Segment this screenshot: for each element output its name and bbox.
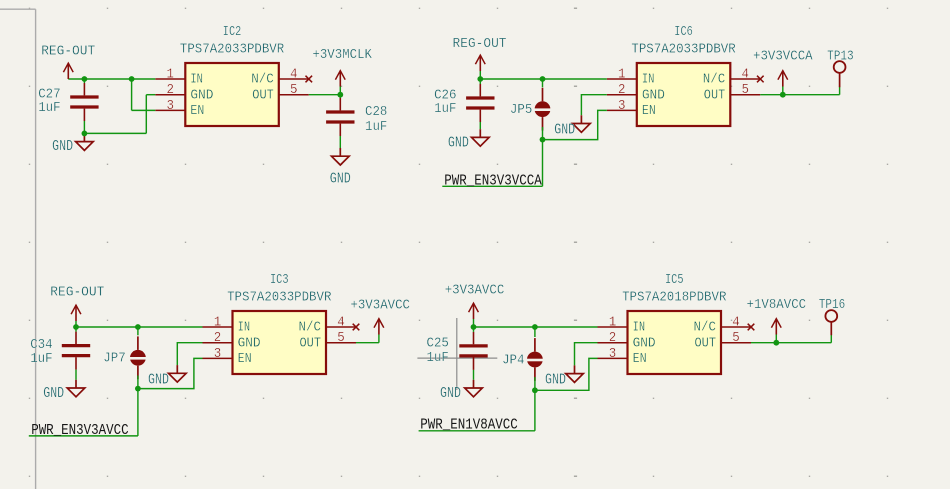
svg-text:2: 2 [214,330,222,346]
svg-text:JP5: JP5 [510,102,532,118]
svg-text:OUT: OUT [695,335,717,351]
svg-text:+3V3AVCC: +3V3AVCC [350,297,410,313]
svg-text:3: 3 [609,346,617,362]
svg-text:+3V3MCLK: +3V3MCLK [312,47,372,63]
svg-text:1: 1 [214,314,222,330]
svg-text:REG-OUT: REG-OUT [41,43,95,59]
svg-text:1uF: 1uF [434,101,456,117]
svg-text:EN: EN [642,103,656,119]
svg-text:PWR_EN3V3VCCA: PWR_EN3V3VCCA [444,173,542,189]
svg-text:GND: GND [43,386,64,402]
svg-text:GND: GND [545,373,566,389]
svg-text:4: 4 [337,314,345,330]
svg-text:5: 5 [732,330,740,346]
svg-text:IN: IN [190,72,203,88]
svg-text:OUT: OUT [704,87,726,103]
svg-text:PWR_EN3V3AVCC: PWR_EN3V3AVCC [31,423,129,439]
svg-text:GND: GND [148,372,169,388]
svg-text:N/C: N/C [694,320,717,336]
svg-text:1: 1 [167,66,175,82]
svg-text:2: 2 [167,82,175,98]
svg-text:TPS7A2033PDBVR: TPS7A2033PDBVR [180,42,285,58]
svg-text:1: 1 [609,314,617,330]
svg-text:REG-OUT: REG-OUT [50,285,104,301]
svg-text:IC5: IC5 [665,272,684,288]
svg-text:3: 3 [214,346,222,362]
svg-text:TP16: TP16 [819,297,846,313]
svg-text:+1V8AVCC: +1V8AVCC [747,297,807,313]
svg-text:IN: IN [642,72,655,88]
svg-text:GND: GND [642,87,665,103]
svg-text:+3V3VCCA: +3V3VCCA [753,49,813,65]
svg-text:GND: GND [554,123,575,139]
svg-text:TPS7A2033PDBVR: TPS7A2033PDBVR [631,42,736,58]
svg-text:IC2: IC2 [223,24,242,40]
svg-text:IC3: IC3 [270,272,289,288]
svg-text:OUT: OUT [300,335,322,351]
svg-text:TPS7A2018PDBVR: TPS7A2018PDBVR [622,290,727,306]
svg-text:5: 5 [742,82,750,98]
svg-text:1uF: 1uF [427,350,449,366]
svg-text:1uF: 1uF [38,100,60,116]
svg-text:C25: C25 [427,335,449,351]
svg-text:GND: GND [238,335,261,351]
svg-text:TP13: TP13 [827,49,854,65]
svg-text:REG-OUT: REG-OUT [453,36,507,52]
svg-text:2: 2 [618,82,626,98]
svg-text:GND: GND [440,386,461,402]
svg-text:GND: GND [330,171,351,187]
svg-text:EN: EN [190,103,204,119]
svg-text:EN: EN [238,351,252,367]
svg-text:1uF: 1uF [30,351,52,367]
svg-text:JP4: JP4 [502,352,524,368]
svg-text:C28: C28 [365,104,387,120]
svg-text:GND: GND [190,87,213,103]
svg-text:IC6: IC6 [674,24,693,40]
svg-text:3: 3 [618,98,626,114]
svg-text:3: 3 [167,98,175,114]
svg-text:4: 4 [742,66,750,82]
svg-text:N/C: N/C [251,72,274,88]
svg-text:GND: GND [52,139,73,155]
svg-text:JP7: JP7 [103,351,125,367]
svg-text:EN: EN [633,351,647,367]
svg-text:4: 4 [732,314,740,330]
svg-text:N/C: N/C [299,320,322,336]
svg-text:GND: GND [633,335,656,351]
svg-text:4: 4 [290,66,298,82]
svg-text:2: 2 [609,330,617,346]
svg-text:5: 5 [337,330,345,346]
svg-text:5: 5 [290,82,298,98]
svg-text:IN: IN [238,320,251,336]
svg-text:OUT: OUT [252,87,274,103]
svg-text:1uF: 1uF [365,119,387,135]
svg-text:IN: IN [633,320,646,336]
svg-text:+3V3AVCC: +3V3AVCC [445,282,505,298]
svg-text:N/C: N/C [703,72,726,88]
svg-text:GND: GND [448,136,469,152]
svg-text:TPS7A2033PDBVR: TPS7A2033PDBVR [227,290,332,306]
svg-text:1: 1 [618,66,626,82]
svg-text:PWR_EN1V8AVCC: PWR_EN1V8AVCC [420,417,518,433]
